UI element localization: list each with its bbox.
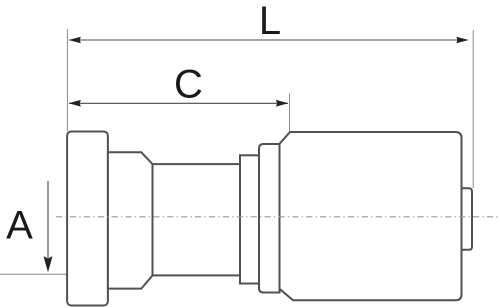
arrow L left xyxy=(69,37,81,44)
collar ring 2 xyxy=(259,144,280,293)
dimension L line xyxy=(70,39,468,41)
neck/step section xyxy=(108,152,153,288)
nipple at right end xyxy=(462,188,473,250)
ferrule body xyxy=(280,132,462,300)
centerline (dash-dot axis) xyxy=(56,216,500,218)
arrow L right xyxy=(456,37,468,44)
extension line for A (flange bottom datum) xyxy=(0,273,67,275)
collar ring 1 xyxy=(240,155,259,283)
extension line right of C (ferrule shoulder) xyxy=(289,94,291,132)
arrow C right xyxy=(276,100,288,107)
middle body section xyxy=(153,164,241,275)
extension line left (L/C datum at flange face) xyxy=(66,29,68,132)
flange xyxy=(67,132,108,306)
extension line right of L (nipple end) xyxy=(472,30,474,188)
dimension A line (vertical) xyxy=(47,181,49,258)
svg-text:L: L xyxy=(259,0,281,43)
arrow C left xyxy=(69,100,81,107)
arrow A down xyxy=(44,256,53,272)
dimension C line xyxy=(69,102,288,104)
svg-text:C: C xyxy=(174,63,203,107)
svg-text:A: A xyxy=(6,204,33,248)
